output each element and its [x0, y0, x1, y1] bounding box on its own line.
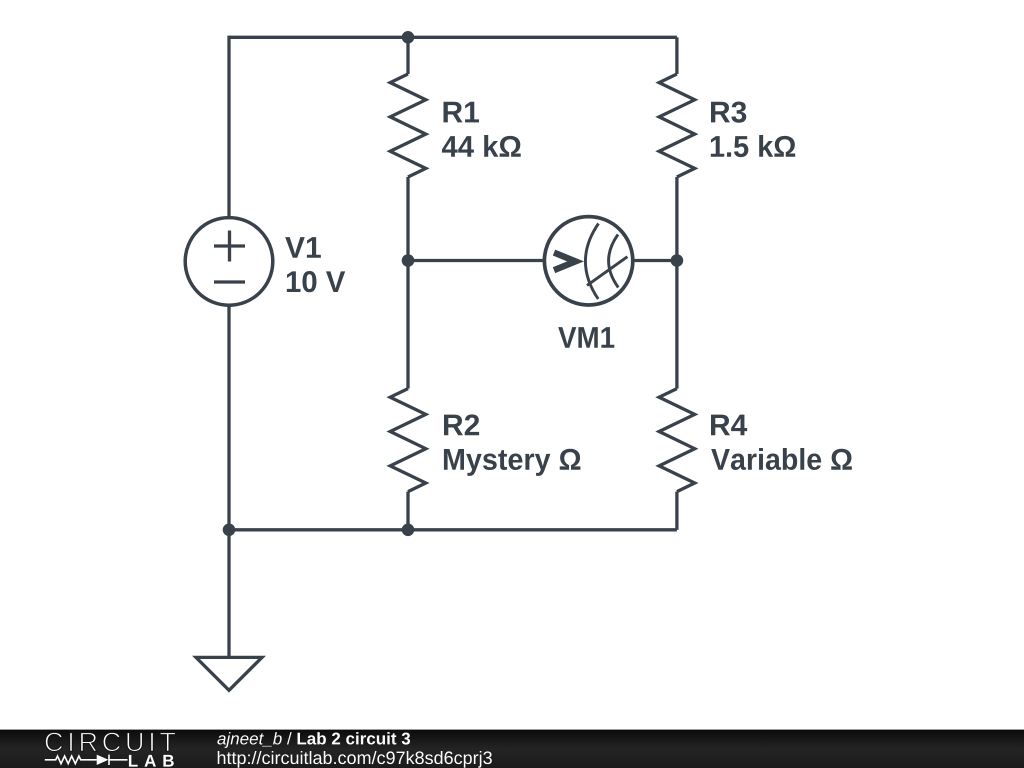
footer logo resistor-diode wire — [45, 755, 128, 765]
resistor R1 — [390, 37, 426, 260]
footer credit: ajneet_b / Lab 2 circuit 3 — [217, 732, 410, 748]
wire bottom rail — [229, 528, 677, 531]
wire VM1 right terminal to node B — [631, 259, 677, 262]
label R1 44 kOhm — [442, 102, 521, 157]
junction node bottom left — [223, 524, 236, 537]
wire node A to VM1 left terminal — [408, 259, 546, 262]
wire top rail right segment — [408, 36, 677, 39]
junction node top — [402, 31, 415, 44]
junction node bottom middle — [402, 524, 415, 537]
footer logo CIRCUIT wordmark — [45, 732, 175, 751]
footer logo LAB wordmark — [129, 755, 174, 767]
ground — [196, 657, 262, 690]
voltage source V1 — [185, 218, 273, 306]
resistor R2 — [390, 261, 426, 530]
label R2 Mystery Ohm — [444, 414, 581, 476]
resistor R4 — [659, 261, 695, 530]
label VM1 — [558, 327, 614, 348]
label R3 1.5 kOhm — [711, 101, 795, 157]
label V1 10 V — [285, 237, 345, 292]
wire bottom node to ground symbol — [227, 530, 230, 656]
footer url http://circuitlab.com/c97k8sd6cprj3 — [218, 751, 492, 768]
label R4 Variable Ohm — [711, 415, 852, 470]
junction node B (right bridge middle) — [671, 254, 684, 267]
footer bar — [0, 730, 1024, 768]
voltmeter VM1 — [544, 217, 632, 305]
junction node A (left bridge middle) — [402, 254, 415, 267]
wire top rail left segment — [229, 36, 408, 39]
resistor R3 — [659, 37, 695, 260]
wire V1 minus terminal to bottom node — [227, 306, 230, 530]
wire left branch top (to V1 plus terminal) — [227, 36, 230, 217]
